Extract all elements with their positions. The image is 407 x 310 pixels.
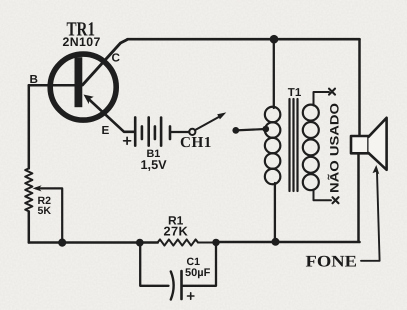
wire base lead [29,84,75,87]
transformer T1 secondary winding [303,105,319,191]
node transformer primary bottom on rail [272,238,280,246]
wire bottom rail left segment [29,241,158,244]
svg-text:CH1: CH1 [180,134,212,151]
node R1 right / C1 right junction [212,239,219,246]
node R1 left / C1 left junction [136,239,144,247]
svg-text:E: E [102,124,110,137]
speaker FONE square [351,136,369,153]
speaker FONE cone [369,118,387,170]
wire battery to switch [171,131,189,133]
node R2 wiper junction [58,239,66,247]
switch CH1 fixed contact dot [232,127,239,134]
wire R2 wiper arm [33,185,63,239]
terminal x mark secondary top [329,89,335,95]
svg-text:50µF: 50µF [185,267,211,279]
svg-text:5K: 5K [38,205,52,217]
wire secondary top lead [314,92,330,106]
transformer T1 core [290,99,298,191]
wire right side bottom (speaker to bottom rail corner) [357,153,360,242]
svg-text:B: B [30,73,38,86]
wire right side top (down to speaker) [358,39,361,137]
wire transformer primary bottom lead [274,183,276,239]
capacitor C1 plus sign [188,293,194,299]
svg-text:27K: 27K [164,223,189,238]
transistor TR1 base bar [75,57,83,107]
wire left rail top (base to R2) [28,85,31,168]
switch CH1 arm with arrow [195,112,226,129]
svg-text:C: C [112,52,121,65]
wire secondary bottom lead [314,190,332,201]
wire switch contact to transformer tap [236,129,266,130]
transformer T1 primary winding [265,107,281,185]
switch CH1 pivot circle [189,129,195,135]
transistor emitter lead with arrow [84,95,136,132]
wire bottom rail right segment [216,241,360,244]
resistor R2 zigzag [25,168,32,211]
resistor R1 zigzag [158,239,216,245]
node junction top rail / transformer primary [270,35,279,44]
wire top rail from collector to right corner [128,38,360,41]
svg-text:1,5V: 1,5V [141,158,168,172]
wire transformer primary top lead [273,39,275,108]
terminal x mark secondary bottom [333,197,339,203]
FONE pointer line with arrow [361,165,380,261]
svg-text:FONE: FONE [306,252,358,270]
transistor TR1 circle [50,54,116,120]
transistor collector lead [83,39,128,85]
capacitor C1 straight plate [180,271,183,299]
svg-text:2N107: 2N107 [63,35,101,49]
capacitor C1 right branch wire [183,243,217,286]
battery B1 plates [135,117,170,145]
svg-text:NÃO USADO: NÃO USADO [327,103,341,193]
node transformer primary tap dot [263,126,270,133]
capacitor C1 curved plate [171,272,174,300]
capacitor C1 left branch wire [140,243,168,286]
svg-text:T1: T1 [288,87,302,99]
wire left rail bottom (R2 to rail) [28,212,31,243]
battery plus sign [124,137,131,144]
